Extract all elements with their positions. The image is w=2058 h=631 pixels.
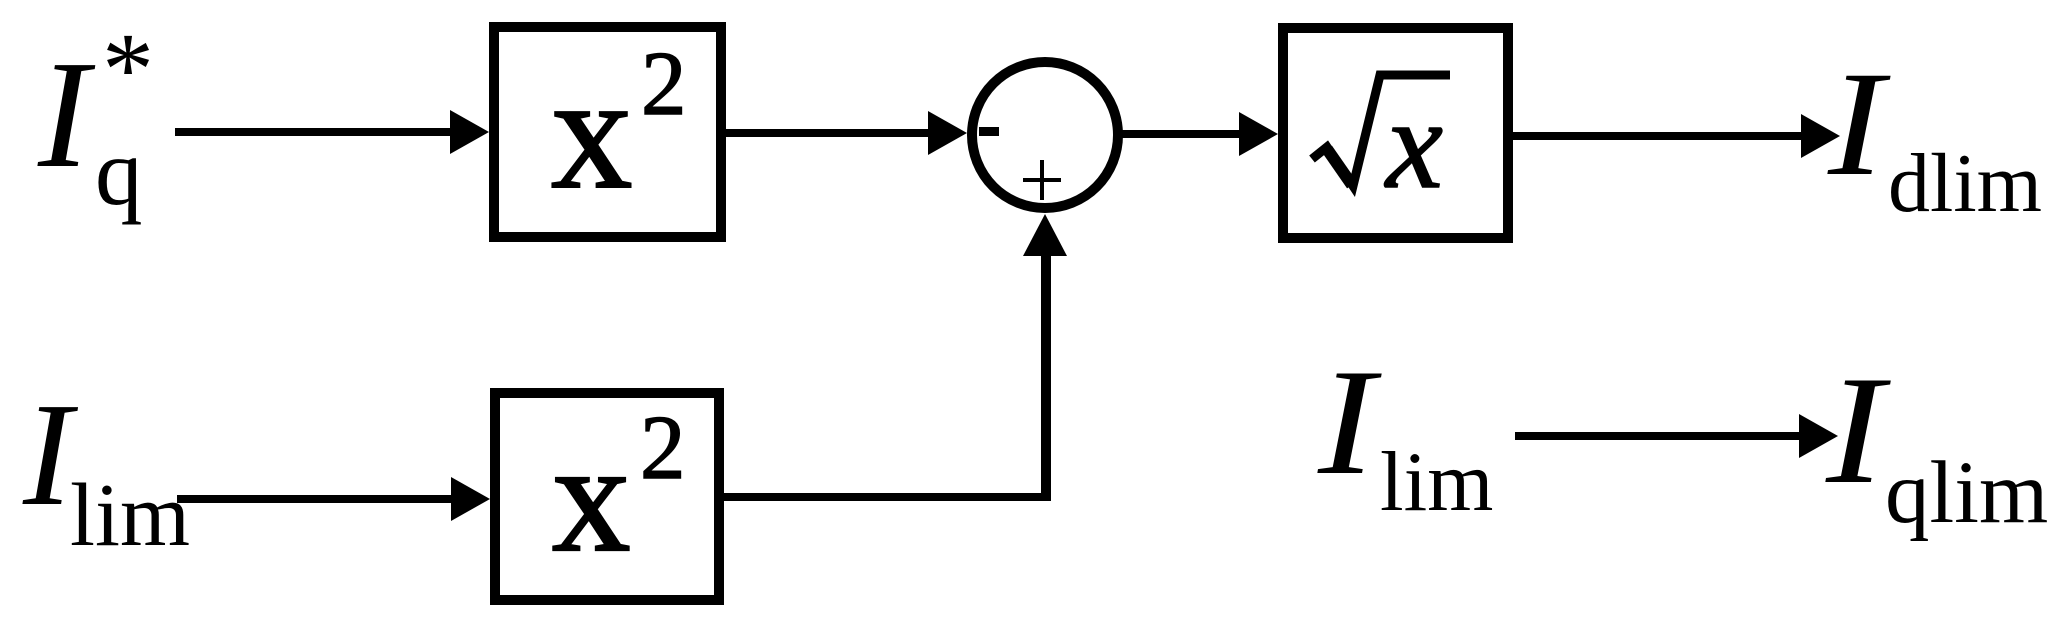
- svg-text:q: q: [95, 119, 143, 225]
- svg-text:x: x: [551, 43, 633, 223]
- svg-text:I: I: [37, 30, 96, 200]
- svg-text:*: *: [102, 12, 154, 127]
- svg-text:I: I: [1317, 338, 1382, 506]
- svg-text:dlim: dlim: [1888, 137, 2042, 230]
- svg-text:2: 2: [641, 33, 687, 134]
- svg-text:lim: lim: [1380, 435, 1493, 529]
- svg-text:x: x: [1384, 73, 1443, 215]
- svg-text:qlim: qlim: [1885, 444, 2048, 542]
- svg-text:I: I: [1825, 344, 1891, 516]
- svg-text:I: I: [1827, 41, 1891, 207]
- svg-text:lim: lim: [70, 466, 190, 565]
- svg-text:2: 2: [640, 397, 686, 498]
- svg-text:x: x: [552, 410, 631, 584]
